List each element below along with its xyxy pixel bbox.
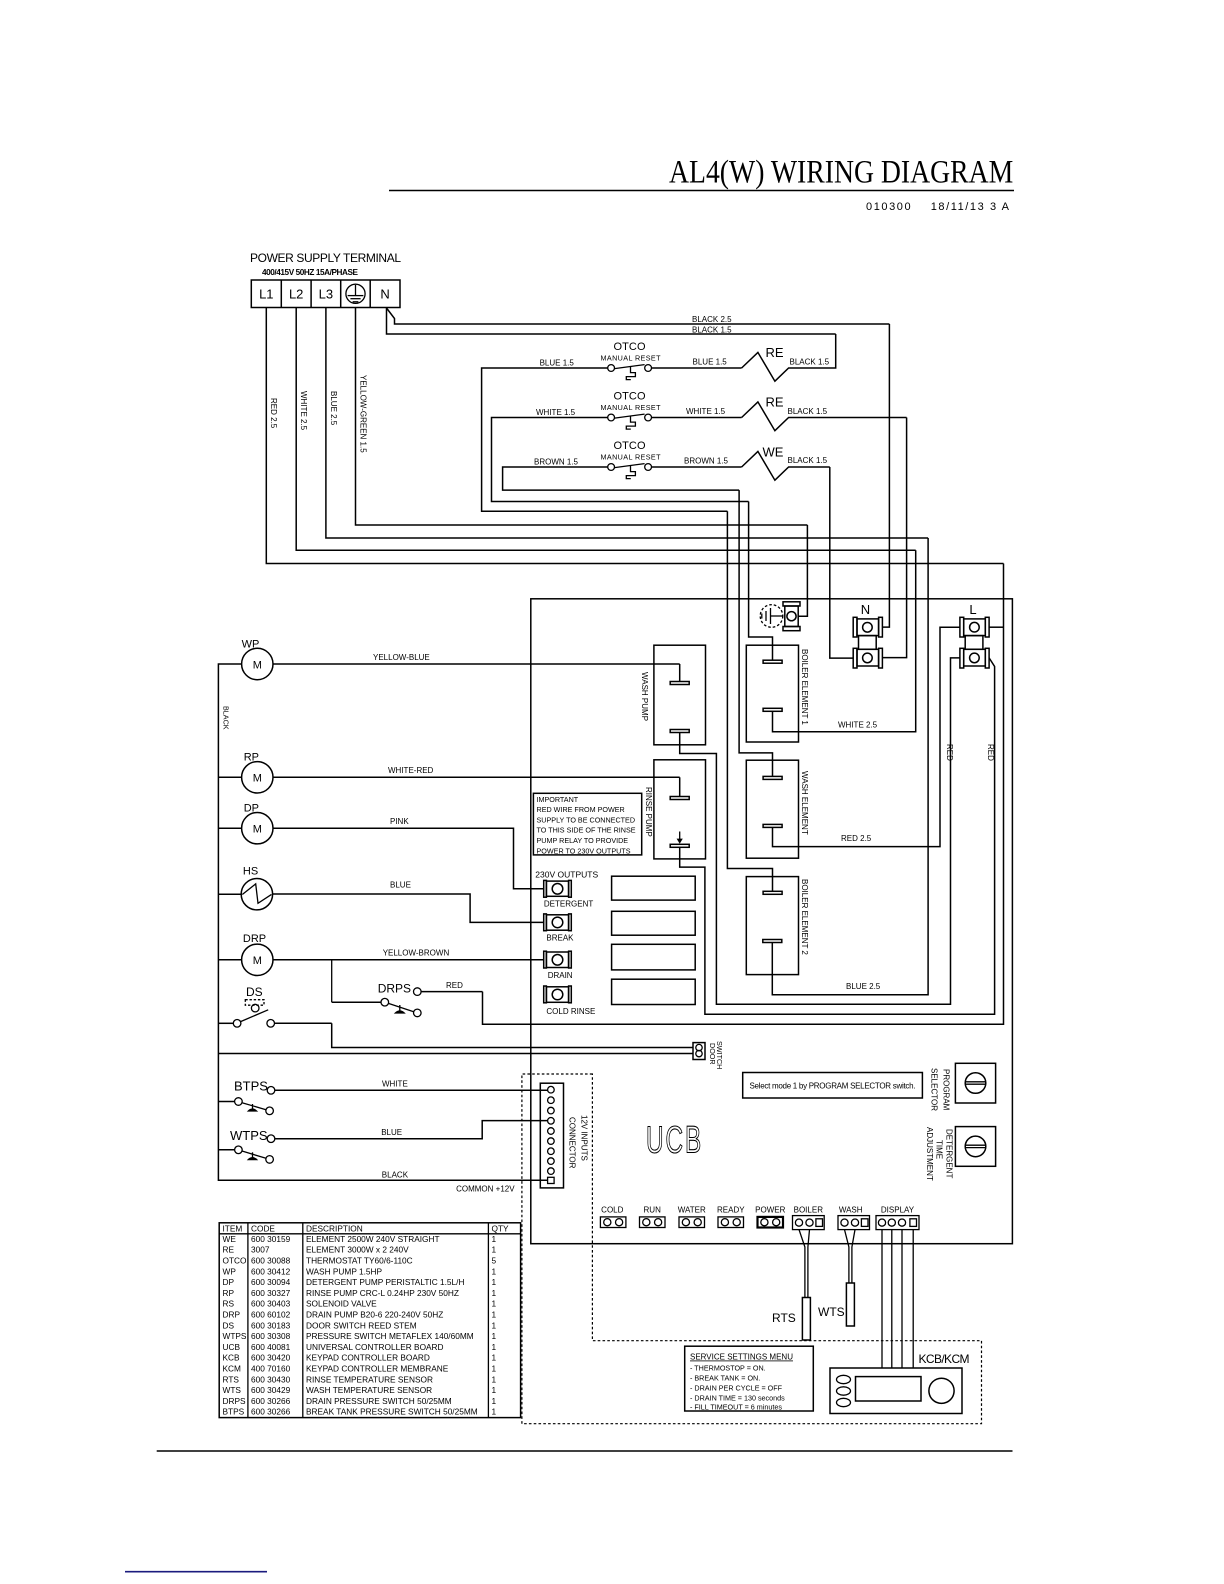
svg-text:RTS: RTS bbox=[772, 1311, 796, 1325]
svg-text:DRP: DRP bbox=[243, 933, 266, 945]
svg-text:BLUE 2.5: BLUE 2.5 bbox=[846, 982, 881, 991]
svg-text:POWER SUPPLY TERMINAL: POWER SUPPLY TERMINAL bbox=[250, 251, 401, 265]
svg-text:BLACK: BLACK bbox=[382, 1171, 409, 1180]
svg-text:1: 1 bbox=[492, 1407, 497, 1417]
terminal N upper block bbox=[853, 617, 882, 637]
earth terminal block bbox=[783, 602, 800, 631]
select mode note box bbox=[743, 1073, 923, 1099]
svg-text:DETERGENT: DETERGENT bbox=[945, 1129, 954, 1178]
pressure switch WTPS bbox=[218, 1128, 274, 1163]
svg-text:TIME: TIME bbox=[935, 1140, 944, 1159]
svg-text:M: M bbox=[253, 659, 262, 671]
wire RE1 black to N bus bbox=[882, 324, 889, 627]
heater sensor HS bbox=[241, 866, 272, 910]
svg-text:1: 1 bbox=[492, 1277, 497, 1287]
relay box break bbox=[612, 911, 696, 935]
sensor RTS bbox=[772, 1230, 810, 1340]
output connector COLD RINSE bbox=[544, 986, 572, 1003]
svg-text:OTCO: OTCO bbox=[614, 341, 646, 353]
svg-text:CODE: CODE bbox=[251, 1224, 275, 1234]
svg-text:ADJUSTMENT: ADJUSTMENT bbox=[925, 1127, 934, 1181]
wire L3 BLUE 2.5 bbox=[326, 308, 928, 539]
svg-text:WTPS: WTPS bbox=[230, 1128, 268, 1143]
svg-text:DETERGENT: DETERGENT bbox=[544, 900, 593, 909]
svg-text:BOILER ELEMENT 1: BOILER ELEMENT 1 bbox=[800, 649, 809, 725]
wire DRP yellow-brown to drain output bbox=[273, 959, 544, 961]
wire L top to RED 2.5 riser bbox=[989, 626, 1003, 628]
svg-text:BLUE: BLUE bbox=[390, 881, 411, 890]
svg-text:RED: RED bbox=[945, 744, 954, 761]
svg-text:Select mode 1 by PROGRAM SELEC: Select mode 1 by PROGRAM SELECTOR switch… bbox=[750, 1082, 916, 1091]
wire L1 RED 2.5 bbox=[266, 308, 1003, 564]
svg-text:600 30403: 600 30403 bbox=[251, 1299, 291, 1309]
relay RINSE PUMP bbox=[644, 760, 705, 859]
svg-text:SWITCH: SWITCH bbox=[715, 1041, 724, 1069]
title AL4(W) WIRING DIAGRAM bbox=[389, 153, 1014, 213]
wire RP white-red to rinse pump relay bbox=[273, 776, 680, 778]
svg-text:ITEM: ITEM bbox=[223, 1224, 243, 1234]
wire BTPS white to 12V connector bbox=[275, 1089, 548, 1091]
wire DP pink to detergent output bbox=[273, 828, 544, 889]
svg-text:M: M bbox=[253, 955, 262, 967]
svg-text:L1: L1 bbox=[259, 287, 273, 302]
svg-text:PRESSURE SWITCH METAFLEX 140/6: PRESSURE SWITCH METAFLEX 140/60MM bbox=[306, 1331, 474, 1341]
svg-text:BLACK 1.5: BLACK 1.5 bbox=[788, 407, 828, 416]
svg-text:DRPS: DRPS bbox=[223, 1396, 247, 1406]
svg-text:230V OUTPUTS: 230V OUTPUTS bbox=[535, 870, 598, 880]
output connector DETERGENT bbox=[544, 880, 572, 897]
wire earth YELLOW-GREEN 1.5 bbox=[356, 308, 808, 526]
LED COLD bbox=[600, 1206, 626, 1228]
svg-text:UCB: UCB bbox=[223, 1342, 241, 1352]
svg-text:WTPS: WTPS bbox=[223, 1331, 247, 1341]
svg-text:YELLOW-BROWN: YELLOW-BROWN bbox=[383, 949, 450, 958]
svg-text:600 30308: 600 30308 bbox=[251, 1331, 291, 1341]
wire black bus to door switch connector bbox=[218, 1053, 693, 1055]
svg-text:RED: RED bbox=[446, 981, 463, 990]
svg-text:M: M bbox=[253, 773, 262, 785]
svg-text:1: 1 bbox=[492, 1288, 497, 1298]
svg-text:WHITE 1.5: WHITE 1.5 bbox=[686, 407, 726, 416]
svg-text:CONNECTOR: CONNECTOR bbox=[567, 1117, 576, 1169]
connector WASH bbox=[838, 1206, 870, 1230]
svg-text:400/415V 50HZ 15A/PHASE: 400/415V 50HZ 15A/PHASE bbox=[262, 268, 359, 277]
wire RE2 black down to N bottom bbox=[882, 418, 906, 658]
svg-text:DRAIN PUMP B20-6 220-240V 50HZ: DRAIN PUMP B20-6 220-240V 50HZ bbox=[306, 1310, 443, 1320]
wire L2 WHITE 2.5 bbox=[296, 308, 916, 551]
svg-text:RE: RE bbox=[766, 395, 784, 410]
svg-text:BOILER ELEMENT 2: BOILER ELEMENT 2 bbox=[800, 879, 809, 955]
door switch DS bbox=[218, 985, 331, 1027]
svg-text:1: 1 bbox=[492, 1353, 497, 1363]
svg-text:YELLOW-GREEN 1.5: YELLOW-GREEN 1.5 bbox=[358, 375, 367, 453]
svg-text:600 30266: 600 30266 bbox=[251, 1407, 291, 1417]
earth symbol in terminal bbox=[346, 284, 365, 303]
pressure switch BTPS bbox=[218, 1079, 274, 1115]
svg-text:SERVICE SETTINGS MENU: SERVICE SETTINGS MENU bbox=[690, 1353, 793, 1362]
relay box cold rinse bbox=[612, 979, 696, 1004]
thermostat OTCO row 1 (BLUE) bbox=[482, 334, 836, 511]
svg-text:QTY: QTY bbox=[492, 1224, 510, 1234]
svg-text:600 30183: 600 30183 bbox=[251, 1320, 291, 1330]
svg-text:WHITE-RED: WHITE-RED bbox=[388, 766, 434, 775]
svg-text:WASH PUMP 1.5HP: WASH PUMP 1.5HP bbox=[306, 1266, 383, 1276]
svg-text:1: 1 bbox=[492, 1245, 497, 1255]
svg-text:1: 1 bbox=[492, 1331, 497, 1341]
LED RUN bbox=[640, 1206, 666, 1228]
svg-text:DOOR SWITCH REED STEM: DOOR SWITCH REED STEM bbox=[306, 1320, 417, 1330]
svg-text:THERMOSTAT TY60/6-110C: THERMOSTAT TY60/6-110C bbox=[306, 1256, 413, 1266]
svg-text:POWER TO 230V OUTPUTS: POWER TO 230V OUTPUTS bbox=[537, 846, 631, 855]
keypad KCB/KCM bbox=[830, 1352, 970, 1414]
svg-text:BLUE: BLUE bbox=[381, 1128, 402, 1137]
svg-text:PUMP RELAY TO PROVIDE: PUMP RELAY TO PROVIDE bbox=[537, 836, 629, 845]
wire N to BLACK 1.5 line bbox=[387, 308, 836, 335]
note box IMPORTANT bbox=[533, 793, 641, 855]
svg-text:WTS: WTS bbox=[818, 1305, 845, 1319]
svg-text:COLD: COLD bbox=[601, 1206, 623, 1215]
output connector BREAK bbox=[544, 914, 572, 931]
footer rule bbox=[157, 1450, 1013, 1452]
svg-text:L3: L3 bbox=[319, 287, 333, 302]
svg-text:COMMON +12V: COMMON +12V bbox=[456, 1185, 515, 1194]
svg-text:ELEMENT 3000W x 2 240V: ELEMENT 3000W x 2 240V bbox=[306, 1245, 409, 1255]
svg-text:MANUAL RESET: MANUAL RESET bbox=[601, 354, 662, 363]
svg-text:RE: RE bbox=[223, 1245, 235, 1255]
svg-text:600 30266: 600 30266 bbox=[251, 1396, 291, 1406]
output connector DRAIN bbox=[544, 951, 572, 968]
service settings menu box bbox=[685, 1346, 814, 1411]
wire earth block to yellow-green bbox=[798, 525, 807, 616]
12V inputs connector bbox=[540, 1083, 588, 1188]
svg-text:- FILL TIMEOUT = 6 minutes: - FILL TIMEOUT = 6 minutes bbox=[690, 1402, 782, 1411]
wire BLUE 2.5 to boiler element 2 bbox=[772, 538, 928, 995]
wire N to BLACK 2.5 line bbox=[387, 308, 890, 324]
svg-text:DRP: DRP bbox=[223, 1310, 241, 1320]
svg-text:OTCO: OTCO bbox=[614, 440, 646, 452]
svg-text:MANUAL RESET: MANUAL RESET bbox=[601, 453, 662, 462]
svg-text:BOILER: BOILER bbox=[794, 1206, 824, 1215]
svg-text:N: N bbox=[861, 602, 870, 617]
svg-text:BLACK 1.5: BLACK 1.5 bbox=[788, 456, 828, 465]
wire WHITE 2.5 to boiler element 1 bbox=[773, 550, 916, 732]
svg-text:RED 2.5: RED 2.5 bbox=[269, 398, 278, 429]
svg-text:600 30088: 600 30088 bbox=[251, 1256, 291, 1266]
sensor WTS bbox=[818, 1230, 855, 1326]
parts table bbox=[219, 1223, 520, 1418]
svg-text:RE: RE bbox=[766, 345, 784, 360]
thermostat OTCO row 2 (WHITE) bbox=[492, 391, 907, 502]
svg-text:DESCRIPTION: DESCRIPTION bbox=[306, 1224, 363, 1234]
svg-text:RINSE TEMPERATURE SENSOR: RINSE TEMPERATURE SENSOR bbox=[306, 1374, 433, 1384]
terminal L spacer bbox=[965, 636, 983, 650]
terminal L lower block bbox=[960, 648, 989, 668]
svg-text:L: L bbox=[969, 602, 976, 617]
svg-text:1: 1 bbox=[492, 1364, 497, 1374]
svg-text:M: M bbox=[253, 824, 262, 836]
svg-text:RS: RS bbox=[223, 1299, 235, 1309]
svg-text:WASH ELEMENT: WASH ELEMENT bbox=[800, 771, 809, 835]
svg-text:600 60102: 600 60102 bbox=[251, 1310, 291, 1320]
svg-text:KEYPAD CONTROLLER MEMBRANE: KEYPAD CONTROLLER MEMBRANE bbox=[306, 1364, 449, 1374]
svg-text:POWER: POWER bbox=[755, 1206, 785, 1215]
power supply terminal block bbox=[250, 251, 401, 308]
svg-text:WHITE 2.5: WHITE 2.5 bbox=[838, 721, 878, 730]
svg-text:WE: WE bbox=[763, 445, 784, 460]
svg-text:600 30412: 600 30412 bbox=[251, 1266, 291, 1276]
contactor WASH ELEMENT bbox=[739, 490, 809, 858]
svg-text:1: 1 bbox=[492, 1385, 497, 1395]
wire WP yellow-blue to wash pump relay bbox=[273, 663, 680, 665]
svg-text:WP: WP bbox=[223, 1266, 237, 1276]
svg-text:PINK: PINK bbox=[390, 817, 409, 826]
svg-text:BROWN 1.5: BROWN 1.5 bbox=[684, 457, 729, 466]
svg-text:KCB: KCB bbox=[223, 1353, 241, 1363]
svg-text:RUN: RUN bbox=[644, 1206, 662, 1215]
svg-text:BLUE 2.5: BLUE 2.5 bbox=[329, 391, 338, 426]
svg-text:SUPPLY TO BE CONNECTED: SUPPLY TO BE CONNECTED bbox=[537, 815, 636, 824]
relay box drain bbox=[612, 944, 696, 970]
svg-text:1: 1 bbox=[492, 1320, 497, 1330]
svg-text:RTS: RTS bbox=[223, 1374, 240, 1384]
terminal L upper block bbox=[960, 617, 989, 637]
svg-text:DETERGENT PUMP PERISTALTIC 1.5: DETERGENT PUMP PERISTALTIC 1.5L/H bbox=[306, 1277, 464, 1287]
svg-text:MANUAL RESET: MANUAL RESET bbox=[601, 403, 662, 412]
svg-text:DRAIN PRESSURE SWITCH 50/25MM: DRAIN PRESSURE SWITCH 50/25MM bbox=[306, 1396, 452, 1406]
svg-text:1: 1 bbox=[492, 1342, 497, 1352]
svg-text:DISPLAY: DISPLAY bbox=[881, 1206, 915, 1215]
wire WTPS blue to 12V connector bbox=[275, 1121, 548, 1139]
svg-text:- DRAIN PER CYCLE = OFF: - DRAIN PER CYCLE = OFF bbox=[690, 1383, 783, 1392]
black bus left bbox=[218, 664, 547, 1180]
bottom left mark bbox=[125, 1571, 267, 1573]
contactor BOILER ELEMENT 2 bbox=[727, 511, 808, 974]
svg-text:600 40081: 600 40081 bbox=[251, 1342, 291, 1352]
wire WE black down to N bottom left bbox=[830, 467, 853, 658]
svg-text:SOLENOID VALVE: SOLENOID VALVE bbox=[306, 1299, 377, 1309]
LED WATER bbox=[678, 1206, 706, 1228]
earth terminal symbol (dashed circle) bbox=[760, 605, 783, 628]
svg-text:YELLOW-BLUE: YELLOW-BLUE bbox=[373, 653, 430, 662]
svg-text:BTPS: BTPS bbox=[234, 1079, 268, 1094]
svg-text:AL4(W) WIRING DIAGRAM: AL4(W) WIRING DIAGRAM bbox=[669, 153, 1013, 190]
rotary switch PROGRAM SELECTOR bbox=[930, 1063, 996, 1111]
svg-text:12V INPUTS: 12V INPUTS bbox=[579, 1115, 588, 1161]
wire HS blue to break output bbox=[273, 894, 544, 922]
svg-text:3007: 3007 bbox=[251, 1245, 270, 1255]
svg-text:- BREAK TANK = ON.: - BREAK TANK = ON. bbox=[690, 1373, 760, 1382]
relay WASH PUMP bbox=[640, 645, 705, 745]
motor WP bbox=[242, 639, 273, 680]
terminal N lower block bbox=[853, 648, 882, 668]
svg-text:1: 1 bbox=[492, 1234, 497, 1244]
svg-text:600 30430: 600 30430 bbox=[251, 1374, 291, 1384]
svg-text:PROGRAM: PROGRAM bbox=[942, 1069, 951, 1111]
svg-text:ELEMENT 2500W 240V STRAIGHT: ELEMENT 2500W 240V STRAIGHT bbox=[306, 1234, 440, 1244]
svg-text:KCB/KCM: KCB/KCM bbox=[919, 1352, 970, 1366]
svg-text:1: 1 bbox=[492, 1374, 497, 1384]
svg-text:RED 2.5: RED 2.5 bbox=[841, 834, 872, 843]
svg-text:- THERMOSTOP = ON.: - THERMOSTOP = ON. bbox=[690, 1363, 766, 1372]
svg-text:N: N bbox=[380, 287, 389, 302]
relay box detergent bbox=[612, 876, 696, 900]
LED POWER bbox=[755, 1206, 785, 1228]
wire L bottom right down to rinse pump relay bbox=[680, 658, 995, 1014]
svg-text:BLUE 1.5: BLUE 1.5 bbox=[540, 359, 575, 368]
svg-text:600 30094: 600 30094 bbox=[251, 1277, 291, 1287]
motor RP bbox=[218, 752, 273, 794]
svg-text:1: 1 bbox=[492, 1310, 497, 1320]
svg-text:COLD RINSE: COLD RINSE bbox=[546, 1007, 595, 1016]
svg-text:BROWN 1.5: BROWN 1.5 bbox=[534, 458, 579, 467]
svg-text:KCM: KCM bbox=[223, 1364, 242, 1374]
svg-text:DS: DS bbox=[223, 1320, 235, 1330]
svg-text:RINSE PUMP CRC-L 0.24HP 230V 5: RINSE PUMP CRC-L 0.24HP 230V 50HZ bbox=[306, 1288, 459, 1298]
wire DS to door switch connector bbox=[332, 1023, 693, 1047]
door switch connector bbox=[693, 1041, 724, 1069]
svg-text:BLUE 1.5: BLUE 1.5 bbox=[693, 358, 728, 367]
thermostat OTCO row 3 (BROWN) bbox=[503, 440, 830, 490]
svg-text:600 30429: 600 30429 bbox=[251, 1385, 291, 1395]
pressure switch DRPS bbox=[332, 960, 483, 1017]
LED READY bbox=[717, 1206, 745, 1228]
svg-text:RINSE PUMP: RINSE PUMP bbox=[644, 787, 653, 837]
svg-text:600 30159: 600 30159 bbox=[251, 1234, 291, 1244]
svg-text:BLACK 2.5: BLACK 2.5 bbox=[692, 315, 732, 324]
wire L bottom left down to wash pump relay bbox=[680, 658, 960, 1004]
connector DISPLAY bbox=[876, 1206, 919, 1230]
svg-text:DS: DS bbox=[246, 985, 263, 999]
svg-text:5: 5 bbox=[492, 1256, 497, 1266]
svg-text:L2: L2 bbox=[289, 287, 303, 302]
svg-text:DRPS: DRPS bbox=[378, 982, 411, 996]
svg-text:WASH: WASH bbox=[839, 1206, 863, 1215]
svg-text:1: 1 bbox=[492, 1266, 497, 1276]
svg-text:READY: READY bbox=[717, 1206, 745, 1215]
svg-text:OTCO: OTCO bbox=[614, 391, 646, 403]
motor DP bbox=[218, 803, 273, 844]
svg-text:DRAIN: DRAIN bbox=[548, 971, 573, 980]
svg-text:1: 1 bbox=[492, 1396, 497, 1406]
svg-text:OTCO: OTCO bbox=[223, 1256, 248, 1266]
svg-text:BLACK 1.5: BLACK 1.5 bbox=[692, 326, 732, 335]
svg-text:IMPORTANT: IMPORTANT bbox=[537, 795, 579, 804]
svg-text:RED WIRE FROM POWER: RED WIRE FROM POWER bbox=[537, 805, 625, 814]
svg-text:600 30327: 600 30327 bbox=[251, 1288, 291, 1298]
svg-text:- DRAIN TIME = 130 seconds: - DRAIN TIME = 130 seconds bbox=[690, 1393, 785, 1402]
svg-text:RP: RP bbox=[223, 1288, 235, 1298]
svg-text:WHITE 2.5: WHITE 2.5 bbox=[299, 391, 308, 431]
wire L top left RED down to wash element bbox=[773, 627, 960, 846]
svg-text:WASH TEMPERATURE SENSOR: WASH TEMPERATURE SENSOR bbox=[306, 1385, 432, 1395]
main enclosure box bbox=[531, 599, 1013, 1244]
svg-text:DP: DP bbox=[223, 1277, 235, 1287]
svg-text:SELECTOR: SELECTOR bbox=[930, 1068, 939, 1111]
svg-text:UNIVERSAL CONTROLLER BOARD: UNIVERSAL CONTROLLER BOARD bbox=[306, 1342, 444, 1352]
svg-text:BREAK TANK PRESSURE SWITCH 50/: BREAK TANK PRESSURE SWITCH 50/25MM bbox=[306, 1407, 478, 1417]
svg-text:WTS: WTS bbox=[223, 1385, 242, 1395]
svg-text:1: 1 bbox=[492, 1299, 497, 1309]
svg-text:BLACK: BLACK bbox=[221, 706, 230, 730]
svg-text:HS: HS bbox=[243, 866, 258, 878]
UCB dashed boundary bbox=[522, 1074, 982, 1424]
motor DRP bbox=[218, 933, 273, 976]
rotary switch DETERGENT TIME ADJUSTMENT bbox=[925, 1127, 996, 1181]
svg-text:BLACK 1.5: BLACK 1.5 bbox=[790, 358, 830, 367]
svg-text:UCB: UCB bbox=[646, 1118, 703, 1161]
svg-text:BREAK: BREAK bbox=[546, 934, 574, 943]
svg-text:RED: RED bbox=[986, 744, 995, 761]
connector BOILER bbox=[793, 1206, 825, 1230]
svg-text:BTPS: BTPS bbox=[223, 1407, 245, 1417]
svg-text:KEYPAD CONTROLLER BOARD: KEYPAD CONTROLLER BOARD bbox=[306, 1353, 430, 1363]
svg-text:WHITE: WHITE bbox=[382, 1080, 408, 1089]
svg-text:WASH PUMP: WASH PUMP bbox=[640, 672, 649, 721]
svg-text:WE: WE bbox=[223, 1234, 237, 1244]
contactor BOILER ELEMENT 1 bbox=[746, 502, 809, 743]
svg-text:TO THIS SIDE OF THE RINSE: TO THIS SIDE OF THE RINSE bbox=[537, 826, 636, 835]
svg-text:WHITE 1.5: WHITE 1.5 bbox=[536, 408, 576, 417]
svg-text:400 70160: 400 70160 bbox=[251, 1364, 291, 1374]
svg-text:600 30420: 600 30420 bbox=[251, 1353, 291, 1363]
wires DISPLAY to KCB bbox=[882, 1230, 913, 1368]
svg-text:WATER: WATER bbox=[678, 1206, 706, 1215]
wire RED 2.5 riser down to 230V feed bbox=[483, 564, 1004, 1025]
terminal N spacer bbox=[859, 636, 877, 650]
